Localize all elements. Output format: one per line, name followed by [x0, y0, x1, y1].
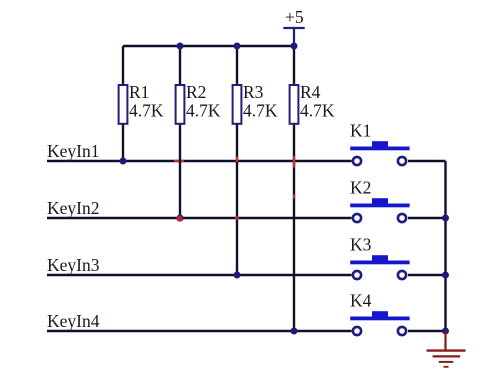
- svg-text:R1: R1: [129, 82, 149, 102]
- svg-text:4.7K: 4.7K: [243, 101, 278, 121]
- svg-text:4.7K: 4.7K: [186, 101, 221, 121]
- svg-text:+5: +5: [285, 7, 304, 27]
- svg-text:4.7K: 4.7K: [129, 101, 164, 121]
- svg-text:R2: R2: [186, 82, 206, 102]
- svg-text:K1: K1: [350, 121, 371, 141]
- svg-text:KeyIn3: KeyIn3: [47, 255, 100, 275]
- svg-text:R3: R3: [243, 82, 264, 102]
- svg-text:R4: R4: [300, 82, 321, 102]
- svg-text:KeyIn2: KeyIn2: [47, 198, 99, 218]
- svg-text:K2: K2: [350, 178, 371, 198]
- svg-text:K4: K4: [350, 291, 372, 311]
- svg-text:KeyIn4: KeyIn4: [47, 311, 100, 331]
- svg-text:4.7K: 4.7K: [300, 101, 335, 121]
- svg-text:KeyIn1: KeyIn1: [47, 141, 99, 161]
- svg-text:K3: K3: [350, 235, 372, 255]
